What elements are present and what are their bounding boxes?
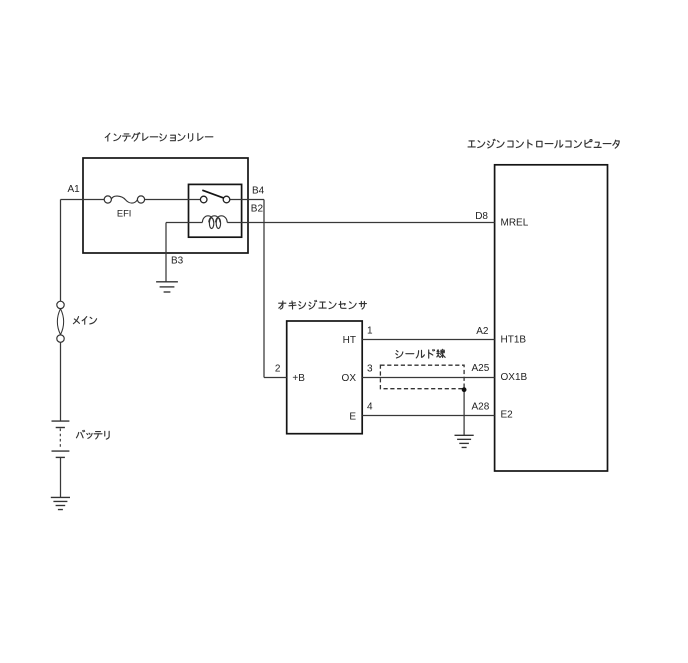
svg-text:HT: HT — [343, 335, 356, 346]
svg-text:EFI: EFI — [117, 208, 131, 218]
svg-text:1: 1 — [367, 325, 373, 336]
svg-text:B3: B3 — [171, 255, 184, 266]
svg-text:A2: A2 — [476, 326, 489, 337]
svg-text:E: E — [349, 411, 356, 422]
svg-text:A1: A1 — [68, 184, 81, 195]
svg-text:B4: B4 — [252, 186, 265, 197]
svg-text:E2: E2 — [501, 410, 514, 421]
svg-text:A28: A28 — [472, 401, 490, 412]
svg-text:+B: +B — [292, 373, 305, 384]
svg-text:MREL: MREL — [501, 217, 529, 228]
svg-text:D8: D8 — [475, 211, 488, 222]
svg-text:HT1B: HT1B — [501, 335, 527, 346]
svg-text:OX1B: OX1B — [501, 372, 528, 383]
svg-text:3: 3 — [367, 364, 373, 375]
svg-text:OX: OX — [342, 373, 357, 384]
svg-text:B2: B2 — [251, 204, 264, 215]
svg-text:4: 4 — [367, 402, 373, 413]
svg-text:A25: A25 — [472, 363, 490, 374]
svg-text:2: 2 — [275, 364, 281, 375]
